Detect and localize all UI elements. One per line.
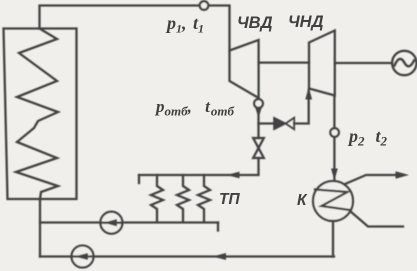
node p_otb extraction point <box>254 99 263 108</box>
heat consumer ТП radiator 3 <box>198 175 210 222</box>
label ТП <box>219 191 240 208</box>
valve (vertical hourglass) to heat consumer <box>253 138 264 158</box>
heat consumer ТП radiator 1 <box>151 175 163 222</box>
label К condenser <box>297 192 308 209</box>
pump P2 condensate pump <box>72 246 94 268</box>
turbine LP section ЧНД <box>309 31 335 96</box>
heat consumer ТП radiator 2 <box>177 175 189 222</box>
node p2,t2 on exhaust line <box>330 128 339 137</box>
wire: valve down to ТП supply bus <box>139 158 259 183</box>
wire: shaft ЧНД to generator <box>335 62 392 64</box>
label p2 t2 <box>347 126 388 149</box>
turbine HP section ЧВД <box>230 40 259 98</box>
wire: condensate line condenser to boiler <box>40 253 334 260</box>
pump P1 on heat network return <box>100 212 122 234</box>
wire: valve to LP riser <box>294 87 312 124</box>
boiler (steam generator) body <box>4 29 77 200</box>
label p_otb, t_otb <box>154 97 234 119</box>
wire: ЧНД exhaust down to condenser <box>331 96 338 182</box>
condenser cooling coil <box>315 190 350 211</box>
wire: cooling water inlet <box>350 211 403 227</box>
svg-text:ТП: ТП <box>219 191 240 208</box>
node p1,t1 on steam line <box>200 1 209 10</box>
label p1, t1 <box>165 13 204 36</box>
wire: shaft ЧВД to ЧНД <box>259 61 309 63</box>
wire: extraction drop from ЧВД exhaust <box>255 98 262 138</box>
svg-text:ЧВД: ЧВД <box>237 14 273 32</box>
wire: condenser drain <box>332 221 334 257</box>
svg-text:ЧНД: ЧНД <box>288 13 324 31</box>
svg-text:К: К <box>297 192 308 209</box>
generator G <box>392 51 416 75</box>
wire: extraction tee to valve <box>259 122 275 124</box>
wire: cooling water outlet with arrow <box>345 171 409 184</box>
wire: ТП return bus / feed line to boiler <box>40 223 218 231</box>
label ЧНД <box>288 13 324 31</box>
boiler heating coil <box>16 29 58 200</box>
wire: main steam line boiler to HP turbine <box>40 6 230 51</box>
label ЧВД <box>237 14 273 32</box>
wire: boiler downcomer <box>39 199 41 257</box>
valve (horizontal bowtie) on crossover <box>274 118 294 130</box>
condenser К shell <box>313 181 353 221</box>
